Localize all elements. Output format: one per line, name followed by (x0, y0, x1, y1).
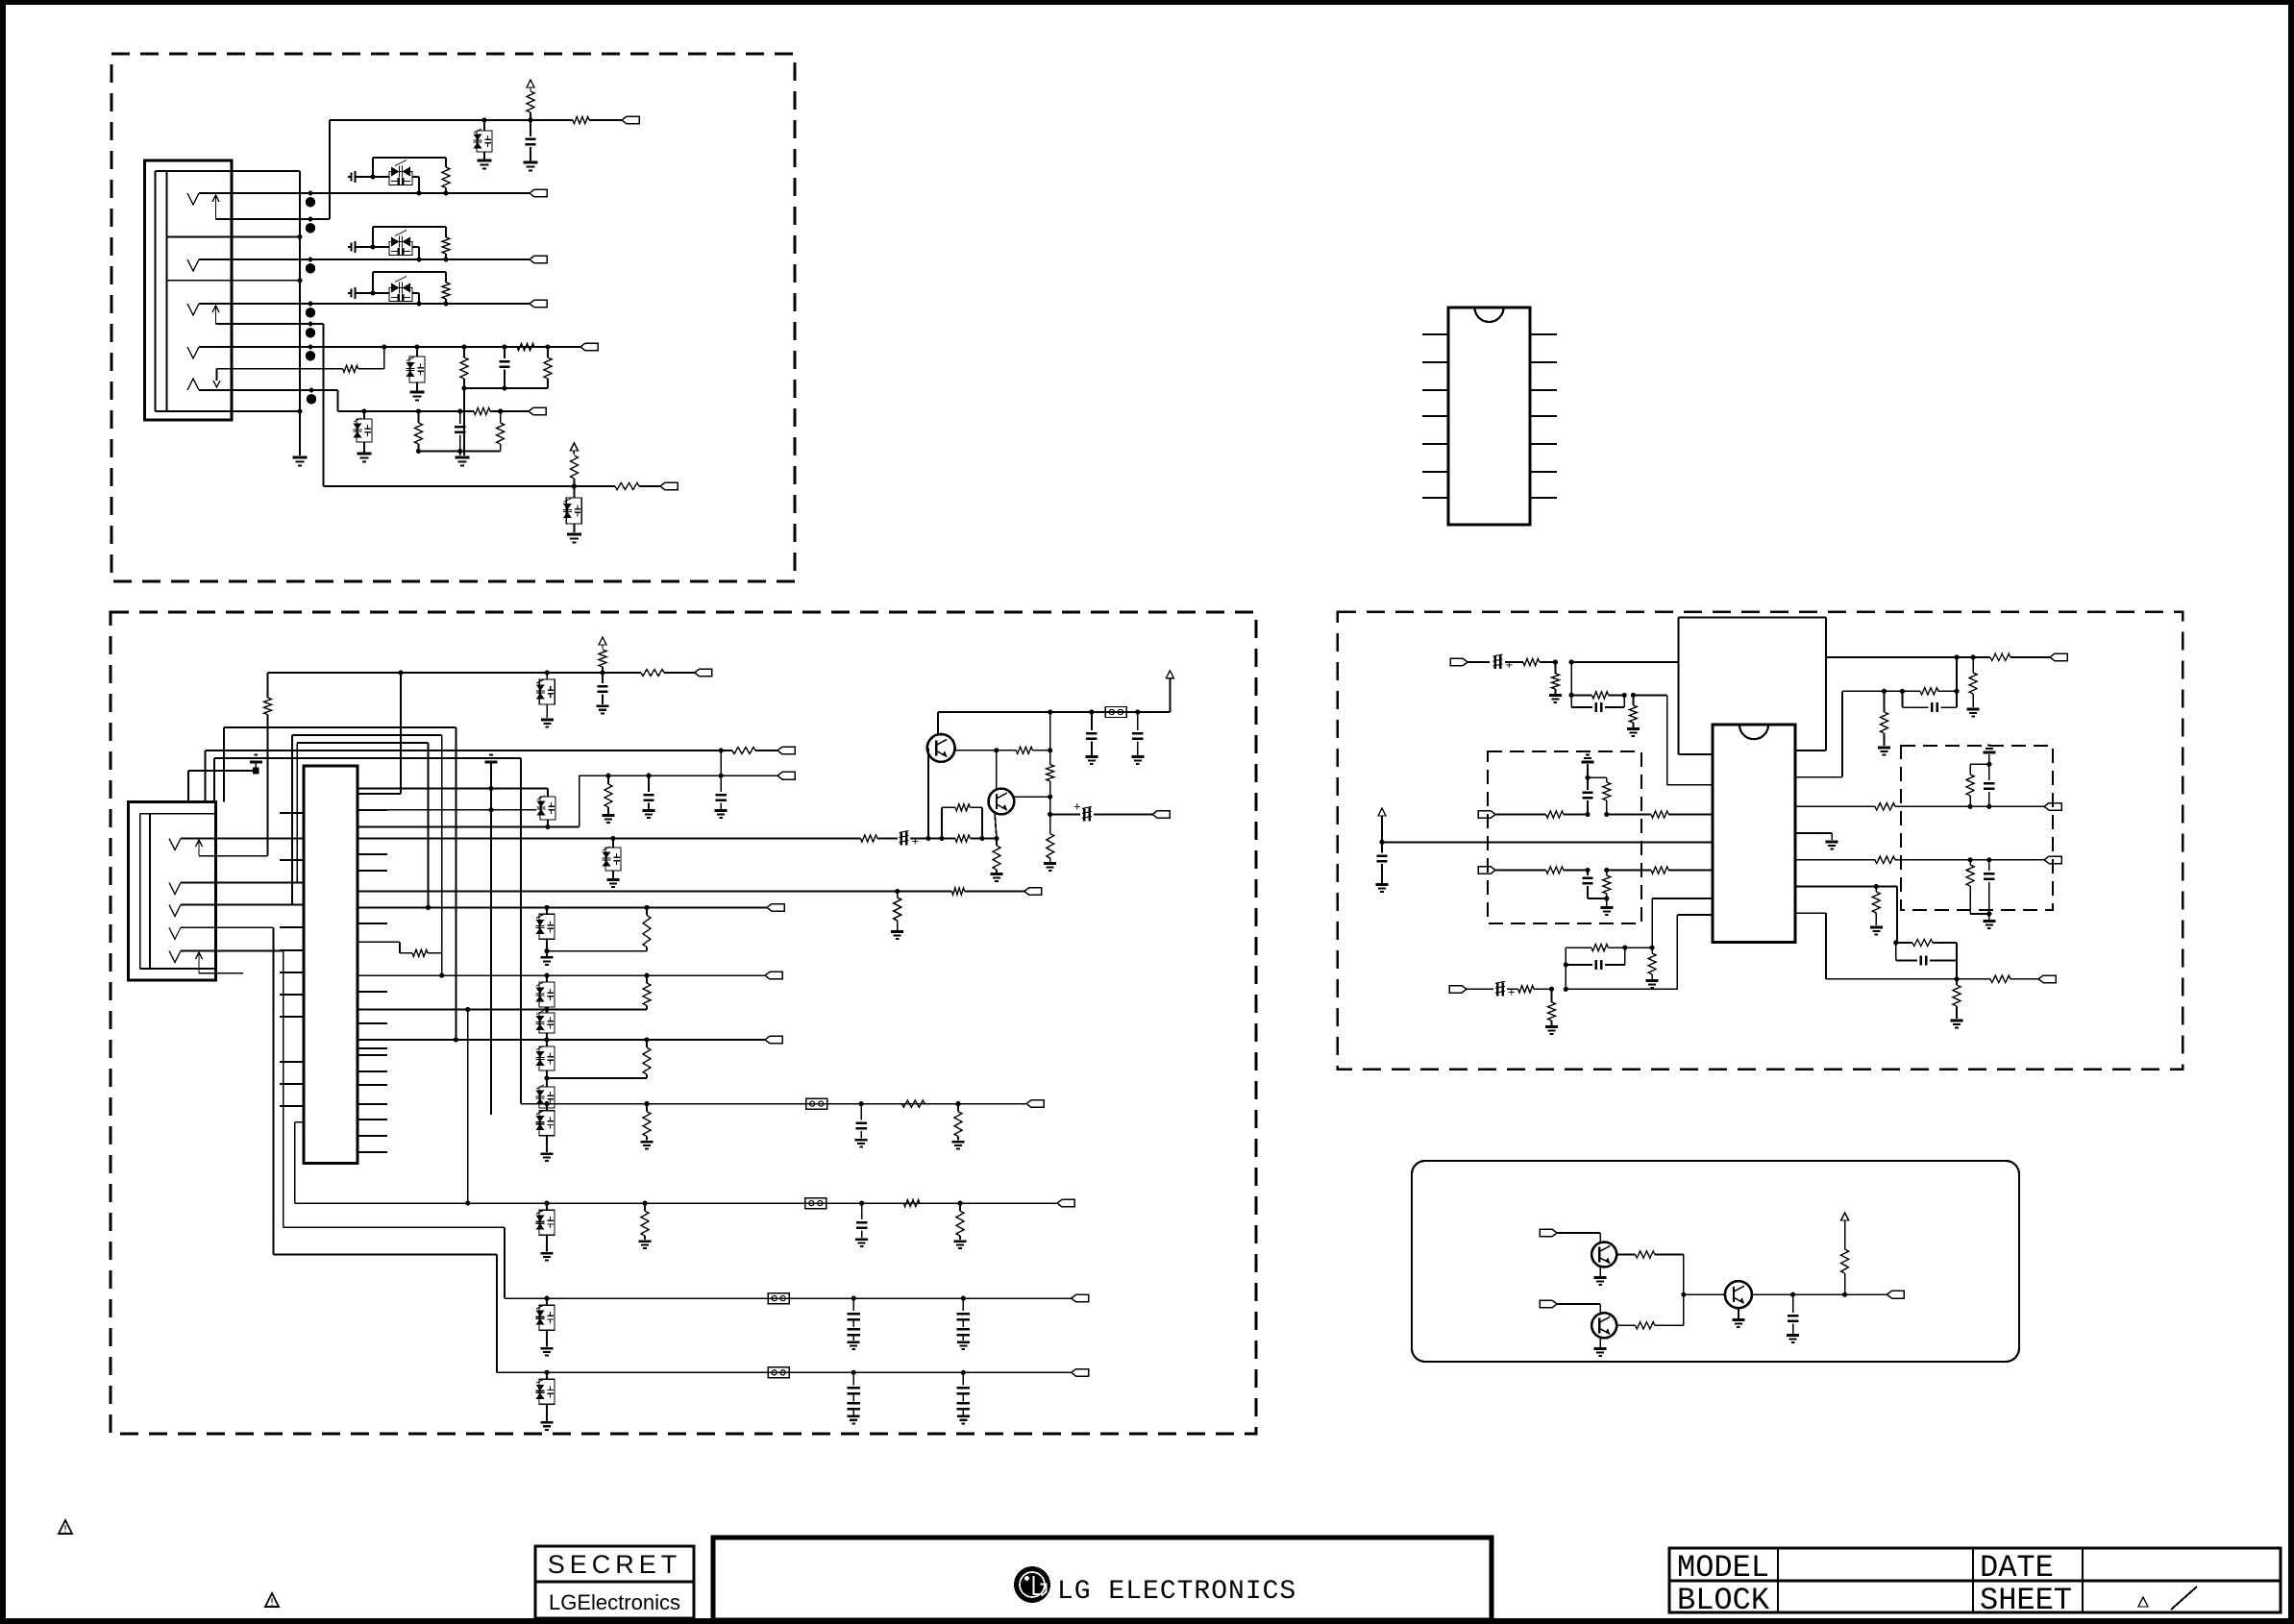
connector J1 pin A direction arrow (215, 195, 217, 219)
ground (mid column) (1044, 862, 1056, 865)
junction MR1a (1968, 804, 1973, 809)
svg-text:SECRET: SECRET (548, 1550, 682, 1579)
wire: IC to R bottom fb (1795, 886, 1876, 888)
IC U1 right pin stub (358, 1103, 387, 1105)
supply arrow (rail B right) (1169, 678, 1171, 712)
junction nest feed row 944 (426, 905, 431, 910)
junction TVS ladder mid 2 (544, 1075, 549, 1080)
transistor Q1 (927, 734, 955, 762)
block C dashed border (1338, 612, 2183, 1070)
junction D6 (502, 385, 506, 390)
junction A1 (416, 190, 421, 195)
resistor (BR2 to ground) (1956, 979, 1958, 985)
resistor (top R out) (1990, 653, 2010, 660)
wire: nest drop to row R1 (455, 727, 456, 1040)
block C inner dashed box left (1488, 751, 1641, 923)
terminal (mid R row1) (2044, 803, 2061, 811)
terminal (bottom row) (660, 482, 678, 490)
junction TR3 (1882, 689, 1887, 694)
terminal (input L1) (1450, 658, 1468, 666)
capacitor (subckt1 input) (348, 176, 351, 178)
IC U2 notch (1475, 308, 1504, 322)
sheet warning triangle (2138, 1597, 2148, 1607)
terminal (row 1082) (765, 1036, 782, 1044)
wire: connector top riser A to nest (205, 750, 207, 802)
capacitor (BR fb) (1895, 943, 1897, 961)
wire: supply row B (268, 672, 574, 674)
ground (column A) (293, 456, 308, 459)
connector J1 pin A (V) (187, 193, 199, 205)
terminal (wire E output) (529, 407, 546, 415)
resistor shunt (row 1252) (642, 1201, 647, 1206)
resistor (ML2 down R) (1606, 871, 1608, 876)
IC U1 left pin stub (280, 972, 304, 973)
wire E ground drop (459, 452, 461, 456)
resistor (IC jog row) (412, 949, 428, 956)
junction ladder row 1082 (544, 1037, 549, 1042)
ground (BR1) (1870, 926, 1883, 929)
transistor Q4 (1591, 1243, 1616, 1267)
ground rail column (490, 762, 492, 1115)
IC U1 left pin stub (280, 1105, 304, 1107)
TVS diode (wire E) (363, 411, 365, 419)
IC U3 body (1713, 725, 1795, 942)
ferrite bead (row 1252) (805, 1198, 826, 1209)
block A dashed border (111, 54, 795, 581)
warning triangle 2 (265, 1593, 279, 1607)
wire TR3-TR4 (1885, 690, 1903, 692)
junction Q2 emitter (994, 836, 999, 841)
resistor shunt (row 944) (644, 905, 649, 910)
IC U1 right pin stub (358, 1119, 387, 1120)
ferrite bead on wire A (308, 191, 313, 196)
IC U2 left pin 2 (1422, 361, 1448, 363)
resistor (Q2 emitter to ground) (996, 839, 998, 847)
wire: Q1 collector (937, 712, 939, 734)
capacitor (MR2 down) (1988, 860, 1990, 871)
wire: mid rail supply column (1381, 816, 1383, 842)
wire: nest drop to row R3 (428, 743, 430, 907)
wire E to terminal (501, 410, 529, 412)
resistor parallel arch (rail) (941, 807, 943, 838)
wire: IC to bottom R row (1795, 912, 1826, 914)
ground (supply col B cap) (597, 704, 609, 707)
transistor Q2 (989, 789, 1015, 815)
resistor series (wire D) (517, 343, 534, 350)
IC U1 right pin stub (358, 1022, 387, 1024)
IC U2 left pin 7 (1422, 497, 1448, 499)
resistor (L1 feedback) (1571, 694, 1591, 696)
TVS diode (rail row) (610, 836, 615, 841)
resistor shunt (row 807) (605, 774, 610, 778)
wire: connector mid pin 2 to ground column (167, 280, 301, 282)
capacitor (MR1 up) (1988, 792, 1990, 806)
IC U1 left pin stub (280, 859, 304, 861)
TVS diode (row 944) (544, 905, 549, 910)
connector J2 pin 4 (V) (169, 927, 181, 939)
connector J1 pin C (V) (187, 304, 199, 315)
junction B2 (443, 257, 448, 261)
junction nest feed row 1015 (439, 973, 444, 978)
svg-text:LG ELECTRONICS: LG ELECTRONICS (1057, 1577, 1296, 1607)
wire: Q4 collector (1616, 1254, 1635, 1256)
ground column wire (299, 171, 301, 455)
junction D node (1681, 1292, 1686, 1297)
terminal (wire D output) (580, 343, 598, 351)
capacitor shunt (row 807) (646, 774, 651, 778)
IC U2 right pin 9 (1530, 471, 1557, 473)
IC U2 right pin 13 (1530, 361, 1557, 363)
resistor (mid L row1 b) (1607, 814, 1651, 816)
wire E bottom bus (419, 451, 501, 453)
sheet slash (2171, 1587, 2197, 1610)
wire: IC pin to row 1252 feed (358, 1009, 468, 1011)
ground (top TVS) (478, 160, 492, 162)
wire: row 1149 from nest (521, 1103, 1026, 1105)
connector J1 outer body (145, 160, 233, 420)
capacitor stack 2 (row 1428) (961, 1370, 966, 1375)
ferrite bead on wire C (308, 302, 313, 307)
junction A2 (443, 190, 448, 195)
wire: D input 2 to Q5 base (1557, 1303, 1600, 1305)
wire: nest drop to row R4 (520, 758, 522, 1104)
wire: pin5 long route to row 1351 (283, 950, 284, 1227)
IC U1 left pin stub (280, 882, 304, 884)
junction E6 (457, 449, 462, 454)
resistor shunt (row 1149) (644, 1101, 649, 1106)
wire: TR5 riser (1956, 657, 1958, 691)
capacitor (L2 feedback) (1566, 964, 1592, 966)
connector J2 pin 3 (V) (169, 905, 181, 917)
resistor series (row 1149) (901, 1100, 925, 1107)
supply arrow (row B) (599, 637, 606, 645)
resistor (mid R row2) (1875, 856, 1895, 863)
junction L1b (1569, 659, 1574, 664)
wire D: pin D to terminal (232, 346, 580, 348)
wire: input L1 (1468, 661, 1490, 663)
svg-text:+: + (912, 834, 920, 849)
junction TR1 (1954, 654, 1959, 659)
junction C1 (416, 301, 421, 306)
resistor series (wire E) (474, 407, 490, 414)
IC U2 left pin 3 (1422, 389, 1448, 391)
junction B1 (416, 257, 421, 261)
junction BR1 (1874, 884, 1879, 889)
resistor (L2 feedback) (1565, 947, 1566, 965)
wire subckt2 top loop (372, 227, 374, 247)
LG logo (1014, 1566, 1050, 1603)
connector J2 pin 5 (V) (169, 950, 181, 962)
ground (BR2) (1951, 1020, 1963, 1022)
ground (Q5 emitter) (1594, 1347, 1607, 1350)
junction row 927 (895, 889, 900, 894)
junction ML1b (1604, 812, 1609, 817)
wire: rail row from IC (358, 838, 861, 840)
resistor (TR2 to ground) (1972, 657, 1974, 673)
wire E aux with resistor to wire D (217, 368, 343, 370)
junction E2 (416, 408, 421, 413)
junction top supply (528, 117, 532, 122)
wire: Q1 base (927, 748, 929, 838)
wire: L2 feedback branch (1565, 965, 1566, 989)
resistor (Q1 emitter) (1016, 747, 1032, 753)
ground (wire E TVS) (358, 453, 372, 455)
block C inner dashed box right (1901, 746, 2053, 910)
terminal (supply row B) (695, 669, 712, 677)
wire subckt1 box to wire A (373, 176, 389, 178)
wire: riser to IC pin (400, 673, 402, 794)
IC U1 left pin stub (280, 1083, 304, 1085)
connector J1 pin B (V) (187, 259, 199, 271)
title table (1669, 1548, 2281, 1612)
connector J1 pin C direction arrow (215, 306, 217, 324)
TVS diode (supply row B) (545, 670, 550, 675)
terminal (wire A output) (530, 189, 547, 197)
wire: nest drop to row R2 (441, 735, 443, 975)
TVS diode (ladder 1050-1082) (546, 1010, 548, 1014)
capacitor (D output) (1792, 1294, 1794, 1313)
wire: input L2 to IC (1566, 988, 1677, 990)
wire: Q4 emitter to ground (1599, 1267, 1601, 1277)
junction ML2a (1585, 868, 1590, 873)
capacitor shunt (row 1149) (859, 1101, 864, 1106)
wire: IC to top R row (1795, 750, 1826, 751)
junction L2d (1650, 946, 1655, 950)
resistor (subckt2) (442, 237, 450, 254)
resistor (mid L row2 a) (1546, 867, 1564, 874)
IC U1 right pin stub (358, 1084, 387, 1086)
junction L1a (1553, 659, 1558, 664)
resistor series (input L2) (1518, 986, 1534, 993)
connector J2 pin 1 (V) (169, 838, 181, 849)
junction L2a (1549, 987, 1554, 992)
svg-text:+: + (1506, 657, 1514, 672)
wire: pin2 nest riser (296, 743, 298, 883)
wire: IC feed row to bus (468, 1009, 647, 1011)
connector J1 pin E (inverted V) (187, 379, 199, 390)
junction E4 (498, 408, 503, 413)
ground (MR2) (1983, 920, 1995, 923)
connector J2 pin 1 arrow (198, 840, 200, 856)
TVS diode (row 1428) (544, 1370, 549, 1375)
IC U3 notch (1739, 725, 1768, 739)
ground (supply row B TVS) (541, 719, 554, 722)
wire: row 1351 (505, 1297, 1072, 1299)
IC U2 body (DIP) (1448, 308, 1530, 525)
wire: pin4 long route to row 1428 (272, 927, 274, 1254)
TVS diode (wire D) (416, 347, 418, 357)
wire ML2 to ground (1606, 898, 1608, 906)
supply arrow (mid rail) (1378, 808, 1386, 816)
wire A: pin A to terminal (232, 192, 530, 194)
resistor shunt (row 1015) (644, 973, 649, 978)
ground (supply rail cap 1) (1085, 755, 1098, 758)
block B dashed border (111, 612, 1256, 1434)
supply arrow (block D) (1841, 1213, 1849, 1220)
wire MR1 top link (1970, 763, 1989, 765)
resistor (MR1 up) (1969, 796, 1971, 806)
ground (row 807 cap 2) (715, 809, 728, 812)
wire: row 1252 (295, 1202, 1057, 1204)
junction E1 (361, 408, 366, 413)
resistor shunt 2 (row 1149) (955, 1101, 960, 1106)
junction L2b (1564, 987, 1568, 992)
ferrite bead on wire B (308, 258, 313, 262)
resistor (TR3 to ground) (1884, 691, 1886, 712)
connector J2 shield ground wire (187, 771, 189, 802)
ground (Q4 emitter) (1594, 1276, 1607, 1279)
wire MR2 to ground (1988, 914, 1990, 920)
polarized capacitor (input L1) (1494, 655, 1497, 669)
ground (rail column top) (485, 761, 498, 764)
transistor Q6 (1725, 1281, 1752, 1308)
wire B: pin B to terminal (232, 258, 530, 260)
junction E5 (416, 449, 421, 454)
capacitor (subckt2 input) (348, 246, 351, 248)
wire: Q5 collector (1616, 1324, 1635, 1326)
TVS diode (row 1252) (544, 1201, 549, 1206)
terminal (D output) (1887, 1291, 1904, 1298)
connector J2 outer body (129, 802, 216, 981)
wire: row 944 from IC to terminal (358, 906, 767, 908)
junction D4 (545, 344, 550, 349)
IC U1 right pin stub (358, 809, 387, 811)
IC U2 right pin 11 (1530, 415, 1557, 417)
junction ML2b (1604, 868, 1609, 873)
capacitor (R fb) (1901, 691, 1903, 707)
ground (L1 fb shunt) (1627, 727, 1640, 730)
ferrite bead on wire A aux (308, 217, 313, 222)
capacitor shunt (wire D) (504, 347, 506, 358)
IC U1 right pin stub (358, 1047, 387, 1049)
wire: row 944 bottom bus (547, 950, 647, 952)
IC U2 left pin 6 (1422, 471, 1448, 473)
resistor series (rail row) (861, 835, 877, 842)
IC U2 left pin 5 (1422, 443, 1448, 445)
junction subckt2 (370, 244, 375, 249)
wire: IC pin row to ground rail (358, 788, 548, 790)
ground (Q6) (1732, 1318, 1744, 1321)
junction ML1c (1585, 775, 1590, 780)
TVS diode (row 1082) (546, 1040, 548, 1046)
resistor (E aux) (343, 365, 358, 372)
ground (rail TVS) (607, 878, 620, 881)
wire: supply rail 741 (938, 711, 1170, 713)
ground (row 807 resistor) (603, 814, 615, 817)
ground (TR3) (1878, 747, 1890, 750)
ground above (MR1) (1988, 754, 1990, 764)
TVS diode (ladder 1122-1149) (546, 1078, 548, 1087)
wire MR2 bottom link (1970, 913, 1989, 915)
ground (connector J2 shield) (250, 761, 262, 764)
wire: Q2 base from Q1 emitter (996, 750, 998, 789)
resistor pull-up (block D) (1844, 1220, 1846, 1249)
IC U1 left pin stub (280, 1061, 304, 1063)
wire subckt2 box to wire B (373, 246, 389, 248)
resistor (mid L row1 a) (1546, 811, 1564, 818)
wire: IC bottom-left pin to row 1252 (295, 1121, 304, 1123)
junction ML1a (1585, 812, 1590, 817)
TVS diode (row 1149) (544, 1101, 549, 1106)
resistor shunt (wire D) (463, 347, 465, 357)
wire: D input 1 to Q4 base (1557, 1232, 1600, 1234)
TVS diode (row 1351) (544, 1296, 549, 1301)
wire: mid column lower (1049, 797, 1051, 814)
junction D0 (382, 344, 386, 349)
connector J2 pin 5 arrow (198, 952, 200, 973)
capacitor shunt 2 (row 807) (720, 775, 722, 792)
wire C: pin C to terminal (232, 303, 530, 305)
terminal (D input 1) (1540, 1229, 1557, 1237)
junction MR2a (1968, 857, 1973, 862)
page border frame (0, 0, 2294, 5)
wire: Q2 emitter (995, 812, 997, 839)
wire: BR fb to row (1956, 943, 1958, 979)
resistor (L1 fb to ground) (1632, 695, 1634, 705)
junction L2c (1622, 946, 1627, 950)
ground (supply rail cap 2) (1131, 755, 1144, 758)
ground (wire D and E networks) (456, 456, 470, 459)
resistor series (supply row B) (641, 669, 664, 676)
terminal (row 807) (777, 772, 795, 779)
connector J1 pin D (V) (187, 347, 199, 358)
ground (mid rail cap) (1376, 883, 1389, 886)
resistor shunt (wire E) (418, 411, 420, 423)
resistor (MR2 down) (1969, 860, 1971, 865)
IC U2 right pin 10 (1530, 443, 1557, 445)
wire: row 1428 (497, 1371, 1072, 1373)
IC U2 right pin 14 (1530, 333, 1557, 335)
capacitor (ML1 up) (1587, 800, 1589, 815)
ground (row 927 shunt) (891, 930, 903, 933)
svg-text:+: + (1073, 799, 1081, 813)
wire: output row 847 (1050, 813, 1080, 815)
wire D bottom bus (464, 387, 548, 389)
junction E3 (457, 408, 462, 413)
junction D1 (414, 344, 419, 349)
terminal (top R out) (2050, 653, 2067, 661)
resistor (mid column) (1048, 709, 1052, 714)
ground (L2 shunt) (1545, 1025, 1558, 1028)
IC U1 right pin stub (358, 1135, 387, 1137)
ferrite bead on wire C aux (308, 322, 313, 327)
ferrite bead (supply rail) (1105, 707, 1126, 718)
junction D3 (502, 344, 506, 349)
IC U1 right pin stub (358, 1151, 387, 1153)
ferrite bead (row 1428) (768, 1367, 789, 1378)
SECRET box (535, 1546, 694, 1618)
resistor (mid R row1) (1875, 803, 1895, 810)
resistor (wire E far) (500, 411, 502, 423)
junction L1d (1631, 693, 1636, 698)
polarized capacitor (input L2) (1496, 982, 1499, 996)
wire: Q2 collector (1014, 796, 1049, 798)
IC U2 right pin 8 (1530, 497, 1557, 499)
terminal (row 1252) (1057, 1199, 1074, 1207)
resistor (L2 to ground) (1551, 989, 1553, 1002)
wire: pin3 nest riser (291, 735, 293, 905)
junction MR2b (1986, 857, 1991, 862)
resistor (mid column to ground) (1049, 814, 1051, 833)
wire: L1 feedback to IC (1633, 694, 1666, 696)
terminal (mid L row1) (1478, 811, 1495, 819)
wire: nest branch down to row 807 (720, 750, 722, 775)
terminal (row 944) (767, 904, 784, 912)
ground (ML2) (1600, 906, 1613, 909)
IC U1 left pin stub (280, 812, 304, 814)
terminal (row 1015) (765, 972, 782, 979)
supply arrow (top row) (527, 80, 534, 87)
